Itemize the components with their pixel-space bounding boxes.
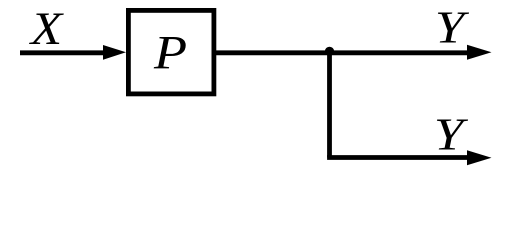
junction dot — [325, 47, 334, 56]
wire branch down from junction — [327, 53, 332, 158]
svg-text:Y: Y — [434, 109, 469, 160]
svg-text:P: P — [153, 27, 187, 80]
arrowhead into P — [103, 45, 126, 60]
wire P output to top Y arrow — [216, 50, 470, 55]
block P (process box) — [128, 10, 214, 94]
wire bottom branch to bottom Y arrow — [327, 155, 470, 160]
svg-text:X: X — [29, 3, 65, 55]
arrowhead top Y — [467, 45, 492, 60]
arrowhead bottom Y — [467, 150, 492, 165]
wire input X to P — [20, 50, 106, 55]
svg-text:Y: Y — [435, 1, 470, 52]
